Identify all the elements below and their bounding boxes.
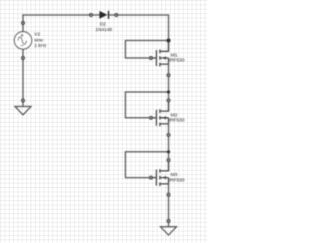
svg-text:M1: M1	[171, 53, 178, 59]
svg-text:M3: M3	[171, 172, 178, 178]
svg-text:M2: M2	[171, 112, 178, 118]
svg-text:1 kHz: 1 kHz	[34, 43, 47, 49]
svg-text:D2: D2	[100, 22, 106, 28]
svg-text:IRF530: IRF530	[169, 58, 185, 64]
svg-text:IRF530: IRF530	[169, 117, 185, 123]
svg-text:V2: V2	[34, 32, 40, 38]
svg-text:IRF530: IRF530	[169, 177, 185, 183]
svg-text:sine: sine	[34, 37, 43, 43]
svg-text:1N4148: 1N4148	[95, 27, 112, 33]
